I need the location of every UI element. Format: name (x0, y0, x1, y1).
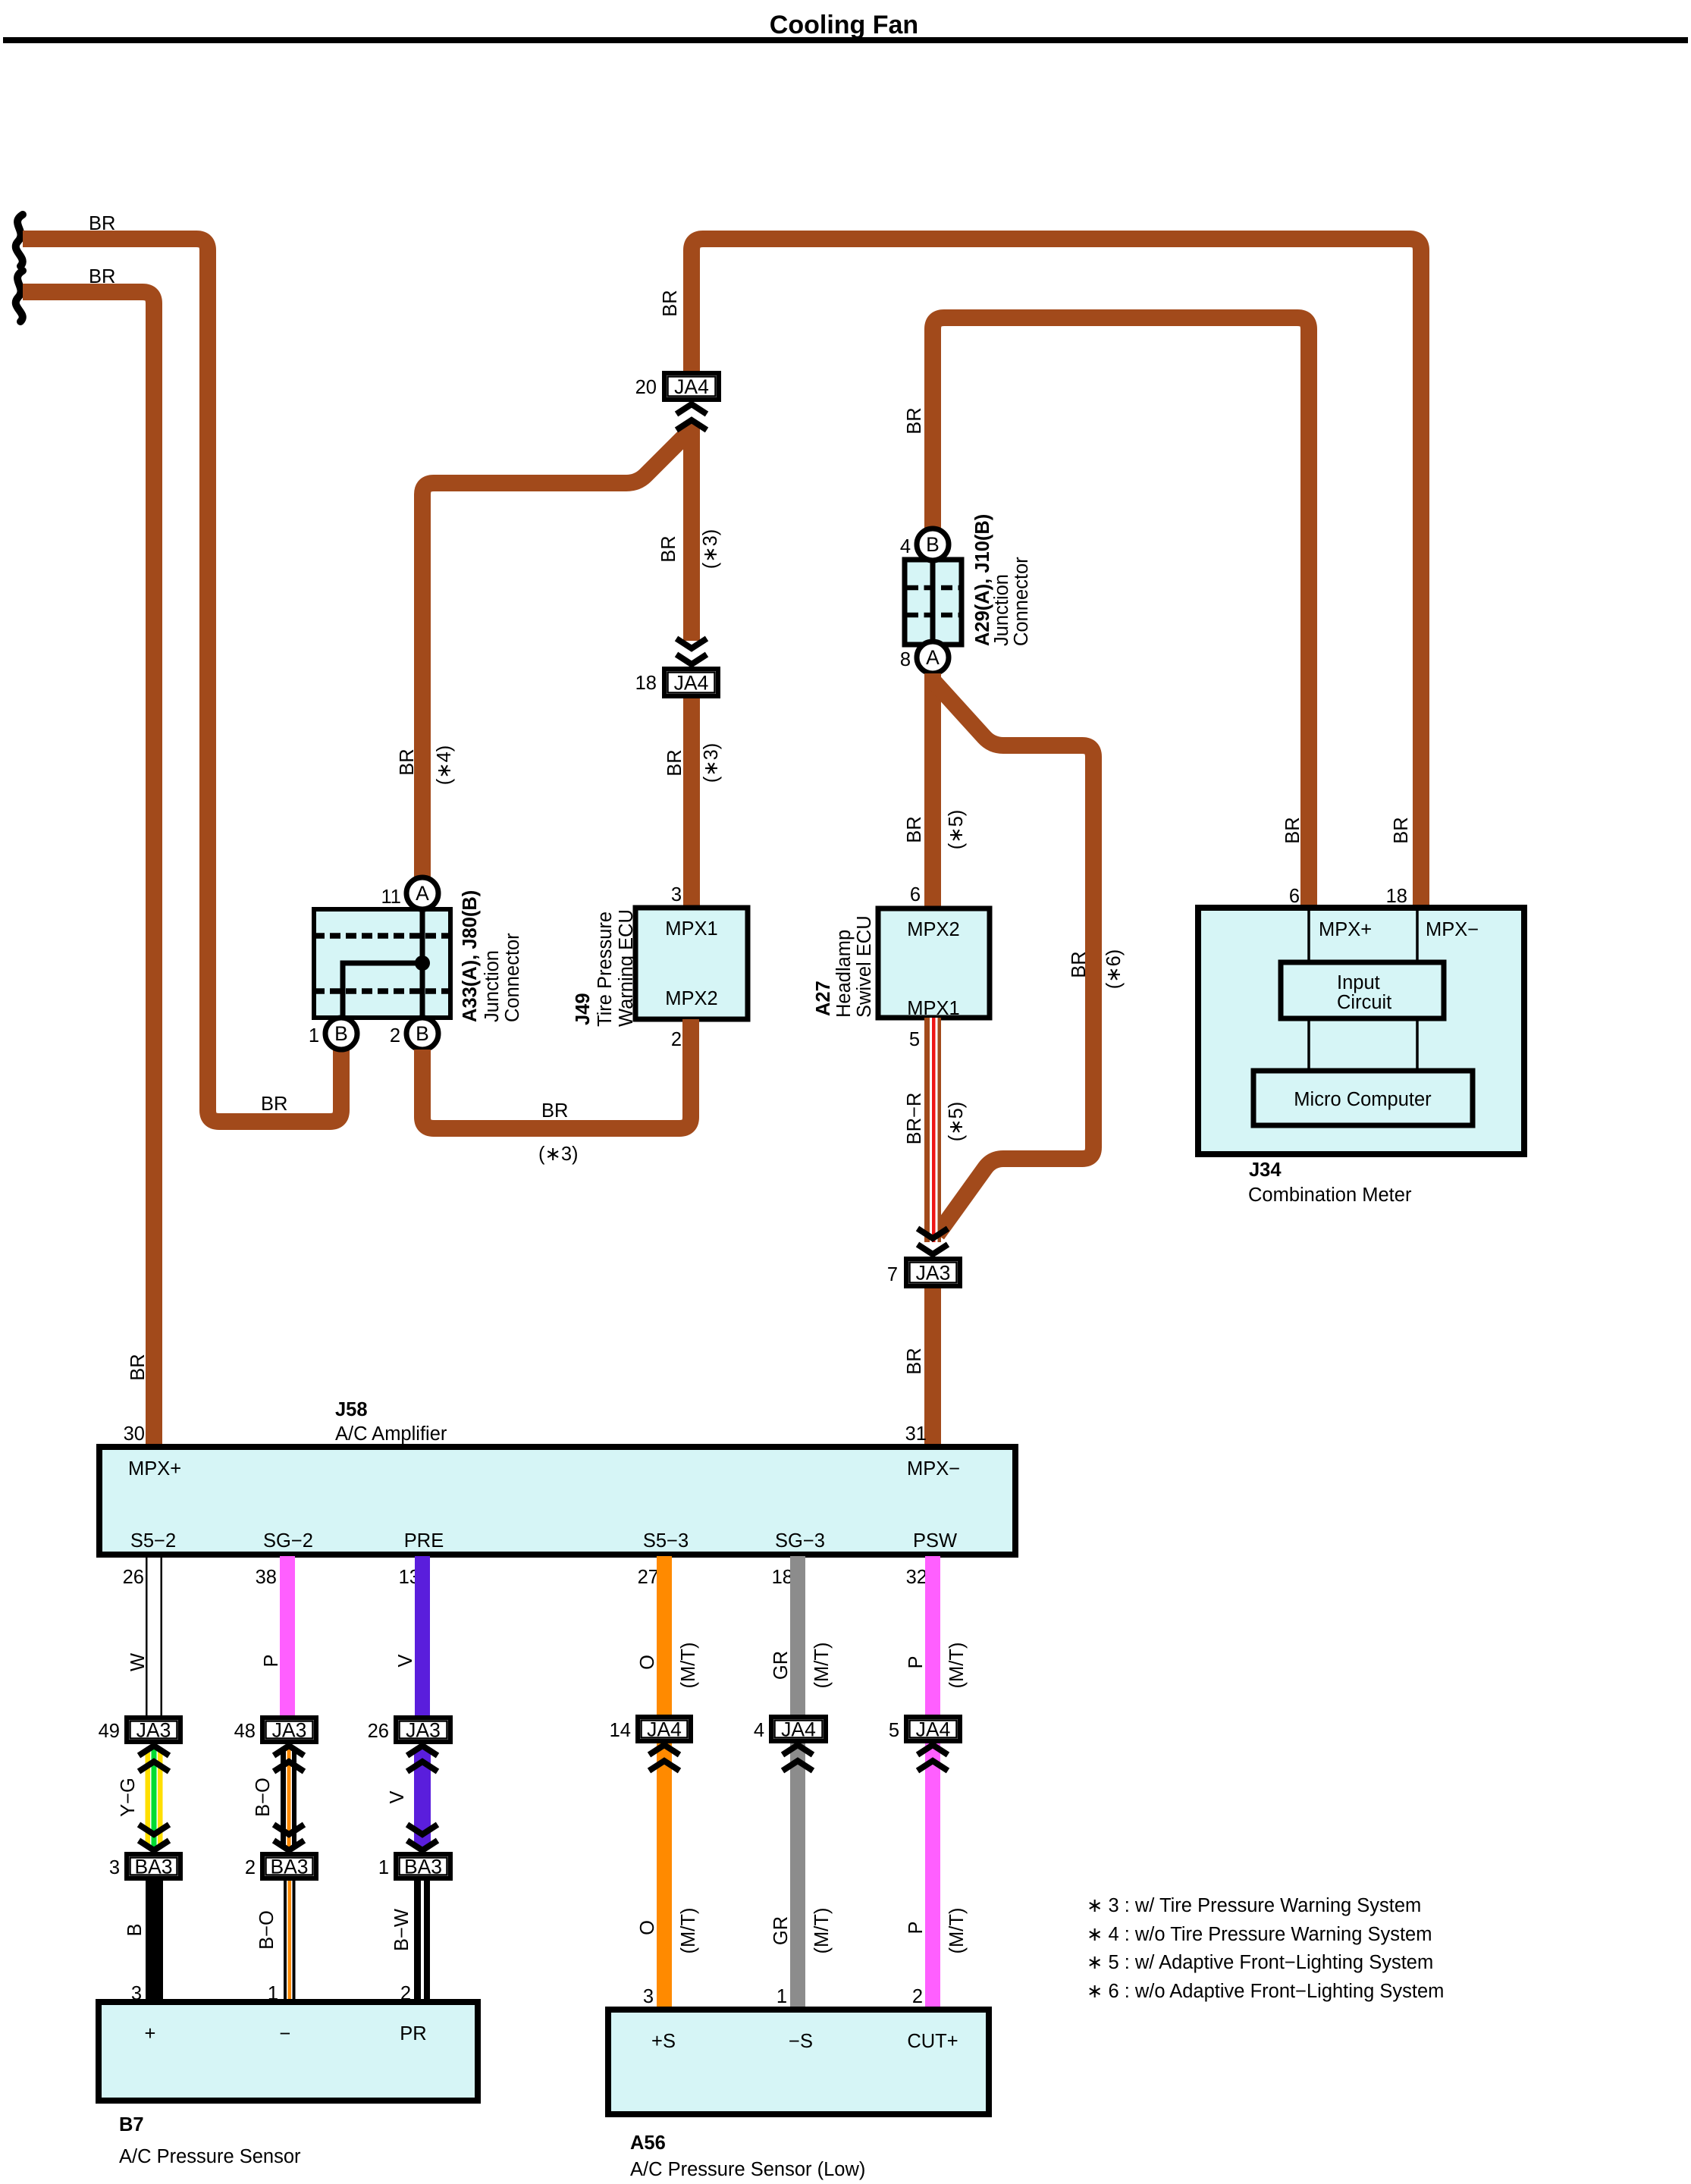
svg-text:O: O (637, 1655, 658, 1670)
svg-text:1: 1 (309, 1025, 319, 1046)
svg-text:2: 2 (671, 1029, 682, 1050)
sensor B7 A/C Pressure Sensor body (99, 2002, 478, 2101)
chevron below 20 JA4 (676, 404, 707, 414)
ECU J49 Tire Pressure Warning ECU body (635, 908, 748, 1019)
svg-text:A/C Amplifier: A/C Amplifier (335, 1423, 447, 1445)
terminal circle B (pin 2) (406, 1018, 438, 1050)
chevron above 3 BA3 (139, 1840, 169, 1850)
wire O from J58 pin 27 to 14 JA4 (657, 1556, 672, 1715)
svg-text:PR: PR (400, 2023, 426, 2044)
wire V between 26 JA3 and 1 BA3 (414, 1749, 431, 1847)
connector 14 JA4 (638, 1717, 691, 1741)
svg-text:4: 4 (900, 536, 911, 557)
svg-text:38: 38 (256, 1567, 277, 1588)
wire BR (*6) bypass loop to 7 JA3 (933, 680, 1093, 1235)
wire BR from break to A33 junction connector pin 1B (23, 239, 341, 1122)
svg-text:A56: A56 (630, 2132, 666, 2154)
svg-text:48: 48 (234, 1721, 256, 1742)
svg-text:(M/T): (M/T) (946, 1908, 968, 1954)
svg-text:P: P (261, 1654, 282, 1667)
connector 1 BA3 (396, 1854, 450, 1878)
A33 internal wire to 1B (343, 963, 422, 1018)
svg-text:JA3: JA3 (272, 1719, 307, 1742)
svg-text:+: + (145, 2023, 156, 2044)
svg-text:Junction: Junction (991, 574, 1012, 646)
svg-text:∗ 3 : w/ Tire Pressure Warning: ∗ 3 : w/ Tire Pressure Warning System (1087, 1895, 1421, 1916)
svg-text:18: 18 (772, 1567, 793, 1588)
svg-text:2: 2 (245, 1857, 256, 1878)
svg-text:2: 2 (912, 1986, 923, 2007)
J34 internal lead MPX- (1416, 908, 1419, 962)
connector 18 JA4 (664, 669, 718, 696)
svg-text:(∗5): (∗5) (946, 1102, 967, 1142)
svg-text:B−W: B−W (391, 1909, 413, 1951)
svg-text:1: 1 (378, 1857, 389, 1878)
connector 49 JA3 (127, 1718, 180, 1742)
svg-text:BR: BR (261, 1094, 287, 1115)
svg-text:BR: BR (904, 816, 925, 843)
wire P from J58 pin 32 to 5 JA4 (925, 1556, 940, 1715)
svg-text:(∗3): (∗3) (700, 529, 721, 570)
svg-text:BA3: BA3 (404, 1856, 442, 1878)
svg-text:6: 6 (1289, 886, 1300, 907)
svg-text:3: 3 (643, 1986, 654, 2007)
svg-text:P: P (905, 1921, 927, 1934)
svg-text:Connector: Connector (502, 933, 523, 1022)
svg-text:J49: J49 (573, 993, 594, 1025)
svg-text:1: 1 (776, 1986, 787, 2007)
A33 dashed bus line upper (314, 933, 450, 939)
svg-text:JA4: JA4 (674, 375, 709, 398)
wire V from J58 pin 13 to 26 JA3 (415, 1556, 430, 1715)
A33 internal junction dot (415, 955, 430, 971)
svg-text:J58: J58 (335, 1399, 368, 1420)
svg-text:32: 32 (906, 1567, 927, 1588)
svg-text:Headlamp: Headlamp (833, 930, 855, 1018)
sensor A56 A/C Pressure Sensor (Low) body (608, 2010, 989, 2114)
wire break symbol (top BR wire) (16, 215, 23, 266)
svg-text:S5−2: S5−2 (130, 1530, 176, 1552)
wire B-O from 2 BA3 to B7 pin 1 - (284, 1881, 287, 2002)
meter J34 Combination Meter body (1198, 908, 1524, 1154)
svg-text:49: 49 (99, 1721, 120, 1742)
wire BR from 7 JA3 to J58 pin 31 MPX- (924, 1288, 941, 1447)
svg-text:V: V (387, 1790, 408, 1803)
connector 4 JA4 (771, 1717, 826, 1741)
svg-text:JA4: JA4 (781, 1718, 816, 1741)
svg-text:6: 6 (910, 884, 921, 905)
connector 3 BA3 (127, 1854, 180, 1878)
svg-text:7: 7 (887, 1264, 898, 1285)
svg-text:(∗4): (∗4) (434, 745, 455, 786)
J34 Micro Computer block (1253, 1071, 1473, 1125)
svg-text:O: O (637, 1920, 658, 1935)
wire BR A29 8A down to A27 pin 6 MPX2 (924, 673, 941, 908)
chevron above 2 BA3 (274, 1840, 304, 1850)
svg-text:BR: BR (89, 266, 115, 287)
title rule (3, 37, 1688, 43)
svg-text:BR: BR (660, 290, 681, 316)
svg-text:MPX−: MPX− (1426, 919, 1479, 940)
wire O from 14 JA4 to A56 pin 3 +S (657, 1743, 672, 2010)
wire BR from 20 JA4 chevron down to 18 JA4 (683, 422, 700, 641)
connector 5 JA4 (906, 1717, 960, 1741)
svg-text:(M/T): (M/T) (811, 1643, 833, 1689)
wire BR diagonal branch to A33 junction connector pin 11A (422, 429, 692, 877)
svg-text:5: 5 (909, 1029, 920, 1050)
svg-text:∗ 6 : w/o Adaptive Front−Light: ∗ 6 : w/o Adaptive Front−Lighting System (1087, 1981, 1444, 2002)
svg-text:26: 26 (123, 1567, 144, 1588)
svg-text:A33(A), J80(B): A33(A), J80(B) (460, 890, 481, 1022)
svg-text:11: 11 (381, 886, 401, 908)
svg-text:MPX2: MPX2 (665, 988, 717, 1009)
A29 center line (930, 560, 936, 645)
svg-text:26: 26 (368, 1721, 389, 1742)
svg-text:18: 18 (1386, 886, 1407, 907)
A29 dashed line upper (907, 585, 959, 591)
svg-text:SG−2: SG−2 (263, 1530, 313, 1552)
svg-text:BR: BR (664, 749, 685, 776)
svg-text:BR: BR (904, 407, 925, 434)
svg-text:BR: BR (1282, 817, 1304, 843)
chevron above 1 BA3 (407, 1840, 438, 1850)
svg-text:S5−3: S5−3 (643, 1530, 689, 1552)
svg-text:A: A (926, 646, 940, 669)
chevron below 26 JA3 (407, 1746, 438, 1756)
terminal circle A (pin 8) (917, 642, 949, 673)
A33 internal wire A to 2B (420, 908, 425, 1018)
svg-text:J34: J34 (1249, 1159, 1282, 1181)
svg-text:JA3: JA3 (916, 1262, 951, 1285)
svg-text:JA3: JA3 (406, 1719, 441, 1742)
wire BR top loop: 20 JA4 up to top rail and down to J34 pin 18 MPX- (692, 239, 1421, 908)
svg-text:JA4: JA4 (674, 672, 709, 695)
svg-text:8: 8 (900, 649, 911, 670)
terminal circle B (pin 4) (917, 529, 949, 560)
svg-text:(M/T): (M/T) (946, 1643, 968, 1689)
svg-text:JA4: JA4 (647, 1718, 682, 1741)
chevron below 14 JA4 (649, 1745, 679, 1755)
svg-text:(∗6): (∗6) (1103, 949, 1125, 990)
svg-text:A/C Pressure Sensor (Low): A/C Pressure Sensor (Low) (630, 2159, 865, 2180)
svg-text:B−O: B−O (253, 1778, 274, 1817)
svg-text:3: 3 (671, 884, 682, 905)
chevron below 49 JA3 (139, 1746, 169, 1756)
svg-text:GR: GR (770, 1916, 792, 1945)
svg-text:BR: BR (397, 748, 418, 775)
connector 26 JA3 (396, 1718, 450, 1742)
wire GR from 4 JA4 to A56 pin 1 -S (790, 1743, 805, 2010)
svg-text:Circuit: Circuit (1337, 992, 1391, 1013)
svg-text:18: 18 (635, 673, 657, 694)
svg-text:(∗3): (∗3) (538, 1144, 579, 1165)
A29 dashed line lower (907, 613, 959, 618)
A33 dashed bus line lower (314, 988, 450, 994)
svg-text:(M/T): (M/T) (678, 1643, 699, 1689)
svg-text:P: P (905, 1655, 927, 1668)
svg-text:∗ 4 : w/o Tire Pressure Warnin: ∗ 4 : w/o Tire Pressure Warning System (1087, 1924, 1432, 1945)
svg-text:Y−G: Y−G (118, 1778, 139, 1817)
svg-text:−S: −S (789, 2031, 813, 2052)
svg-text:BR: BR (1391, 817, 1412, 843)
svg-text:14: 14 (610, 1720, 631, 1741)
svg-text:JA3: JA3 (136, 1719, 171, 1742)
chevron below 48 JA3 (274, 1746, 304, 1756)
chevron below 4 JA4 (783, 1745, 813, 1755)
wire BR J49 pin2 to A33 pin 2B (422, 1019, 691, 1128)
wire BR from 18 JA4 to J49 pin 3 MPX1 (683, 698, 700, 908)
svg-text:BR: BR (1068, 951, 1090, 977)
svg-text:30: 30 (124, 1423, 145, 1445)
wire B-O between 48 JA3 and 2 BA3 (281, 1749, 296, 1847)
svg-text:∗ 5 : w/ Adaptive Front−Lighti: ∗ 5 : w/ Adaptive Front−Lighting System (1087, 1952, 1433, 1973)
svg-text:BA3: BA3 (134, 1856, 172, 1878)
svg-text:+S: +S (651, 2031, 676, 2052)
svg-text:4: 4 (754, 1720, 764, 1741)
terminal circle A (pin 11) (406, 877, 438, 909)
svg-text:MPX−: MPX− (907, 1458, 960, 1480)
wire BR from break to J58 pin 30 MPX+ (23, 292, 154, 1447)
svg-text:Swivel ECU: Swivel ECU (854, 915, 875, 1018)
svg-text:Warning ECU: Warning ECU (616, 909, 637, 1027)
svg-text:BA3: BA3 (270, 1856, 308, 1878)
junction connector A29(A), J10(B) body (905, 560, 962, 645)
svg-text:(∗5): (∗5) (946, 810, 967, 850)
svg-text:A27: A27 (813, 981, 834, 1016)
wire B from 3 BA3 to B7 pin 3 + (146, 1881, 163, 2002)
connector 7 JA3 (906, 1259, 960, 1286)
chevron above 7 JA3 (918, 1244, 948, 1254)
svg-text:Combination Meter: Combination Meter (1248, 1185, 1412, 1206)
svg-text:A/C Pressure Sensor: A/C Pressure Sensor (119, 2146, 301, 2167)
terminal circle B (pin 1) (325, 1018, 357, 1050)
wire P from 5 JA4 to A56 pin 2 CUT+ (925, 1743, 940, 2010)
wire GR from J58 pin 18 to 4 JA4 (790, 1556, 805, 1715)
svg-text:B: B (334, 1022, 348, 1045)
svg-text:Connector: Connector (1011, 557, 1032, 646)
svg-text:BR: BR (904, 1348, 925, 1374)
svg-text:Input: Input (1337, 972, 1380, 993)
svg-text:MPX+: MPX+ (128, 1458, 181, 1480)
svg-text:3: 3 (109, 1857, 120, 1878)
connector 48 JA3 (262, 1718, 316, 1742)
svg-text:MPX2: MPX2 (907, 919, 959, 940)
svg-text:5: 5 (889, 1720, 899, 1741)
svg-text:27: 27 (638, 1567, 659, 1588)
svg-text:W: W (127, 1653, 149, 1671)
wire W from J58 pin 26 to 49 JA3 (146, 1556, 148, 1715)
svg-text:Micro Computer: Micro Computer (1294, 1089, 1432, 1110)
svg-text:V: V (395, 1654, 416, 1667)
svg-text:BR−R: BR−R (904, 1093, 925, 1145)
svg-text:JA4: JA4 (916, 1718, 951, 1741)
svg-text:MPX+: MPX+ (1319, 919, 1372, 940)
svg-text:SG−3: SG−3 (775, 1530, 825, 1552)
wire BR from A29 4B up over to J34 pin 6 MPX+ (933, 318, 1309, 908)
chevron below 5 JA4 (918, 1745, 948, 1755)
svg-text:31: 31 (905, 1423, 927, 1445)
svg-text:B: B (124, 1923, 146, 1936)
svg-text:(∗3): (∗3) (701, 743, 722, 783)
svg-text:BR: BR (127, 1354, 149, 1380)
svg-text:MPX1: MPX1 (665, 918, 717, 940)
svg-text:B−O: B−O (256, 1910, 278, 1950)
svg-text:BR: BR (541, 1100, 568, 1122)
svg-text:(M/T): (M/T) (678, 1908, 699, 1954)
wire P from J58 pin 38 to 48 JA3 (280, 1556, 295, 1715)
wire Y-G between 49 JA3 and 3 BA3 (146, 1749, 163, 1847)
svg-text:BR: BR (89, 213, 115, 234)
svg-text:20: 20 (635, 377, 657, 398)
amplifier J58 A/C Amplifier body (99, 1447, 1015, 1555)
wire break symbol (second BR wire) (16, 271, 23, 322)
wire B-W from 1 BA3 to B7 pin 2 PR (414, 1881, 421, 2002)
J34 leads input to micro (1307, 1018, 1310, 1071)
chevron above 18 JA4 (676, 654, 707, 664)
wire BR-R from A27 pin 5 down to 7 JA3 (924, 1018, 941, 1242)
svg-text:PRE: PRE (404, 1530, 444, 1552)
svg-text:Junction: Junction (482, 950, 503, 1022)
J34 Input Circuit block (1281, 962, 1444, 1018)
ECU A27 Headlamp Swivel ECU body (878, 908, 990, 1018)
svg-text:A29(A), J10(B): A29(A), J10(B) (972, 514, 993, 646)
svg-text:−: − (280, 2023, 291, 2044)
connector 2 BA3 (262, 1854, 316, 1878)
svg-text:MPX1: MPX1 (907, 998, 959, 1019)
svg-text:A: A (416, 882, 429, 905)
svg-text:2: 2 (390, 1025, 400, 1046)
svg-text:GR: GR (770, 1651, 792, 1680)
J34 internal lead MPX+ (1307, 908, 1310, 962)
junction connector A33(A), J80(B) body (314, 909, 450, 1018)
svg-text:BR: BR (658, 535, 679, 562)
svg-text:B: B (926, 533, 940, 556)
svg-text:Tire Pressure: Tire Pressure (595, 912, 616, 1027)
svg-text:(M/T): (M/T) (811, 1908, 833, 1954)
connector 20 JA4 (664, 373, 719, 400)
svg-text:Cooling Fan: Cooling Fan (770, 11, 918, 39)
svg-text:B7: B7 (119, 2114, 144, 2135)
svg-text:PSW: PSW (913, 1530, 957, 1552)
svg-text:CUT+: CUT+ (907, 2031, 958, 2052)
svg-text:B: B (416, 1022, 429, 1045)
